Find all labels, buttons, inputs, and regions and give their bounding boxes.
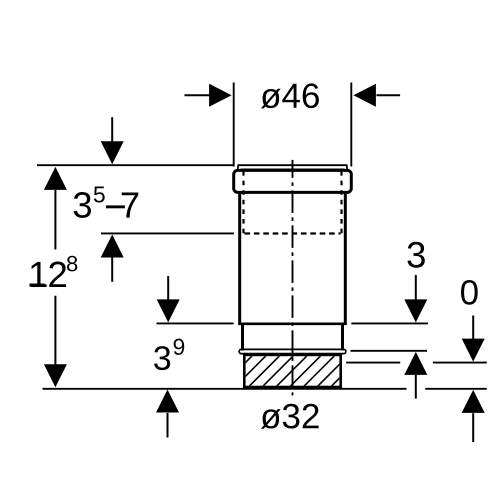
label 3.9 digit 3: [154, 346, 170, 370]
pipe lower section right wall: [341, 324, 344, 351]
label 0 right side: [461, 280, 478, 305]
arrow stem below bottom line left: [167, 413, 169, 438]
arrowhead down to step line right: [404, 299, 427, 322]
socket depth hidden line: [245, 232, 341, 234]
arrowhead down to bottom line for overall height: [44, 364, 67, 387]
label 3.5-7 digit 3: [74, 192, 91, 218]
overall height dimension stem upper: [54, 190, 56, 250]
arrowhead up to socket depth line: [101, 235, 124, 258]
label diameter 46: [261, 83, 319, 108]
label 3.5-7 superscript 5: [94, 187, 105, 203]
arrowhead up to band top line: [404, 352, 427, 375]
arrowhead up to top level line: [44, 167, 67, 190]
label 3 right side: [408, 242, 425, 268]
label 12.8 digit 2: [49, 262, 66, 288]
label 3.9 superscript 9: [174, 339, 185, 355]
dimension arrow tail left of d46: [185, 94, 211, 96]
arrowhead pointing right for d46: [209, 84, 232, 107]
vertical centerline: [292, 160, 294, 396]
label 12.8 digit 1: [31, 262, 47, 287]
arrow stem above zero line: [472, 316, 474, 340]
dimension arrow tail right of d46: [377, 94, 401, 96]
arrow stem above step level line left: [167, 276, 169, 300]
arrowhead pointing left for d46: [353, 84, 376, 107]
step level dimension line right: [351, 322, 428, 324]
overall height dimension stem lower: [54, 296, 56, 365]
bottom level dimension line right part: [425, 388, 487, 390]
pipe body step shoulder line: [238, 322, 347, 325]
arrow stem below bottom line right: [472, 413, 474, 442]
arrowhead up to bottom line right: [462, 390, 485, 413]
pipe body right wall: [344, 192, 347, 323]
label 3.5-7 digit 7: [122, 193, 139, 218]
inner bore hidden line left: [242, 171, 244, 234]
arrow stem above top level line: [111, 117, 113, 142]
zero reference dimension line left segment: [346, 362, 400, 364]
arrowhead down to step line left: [157, 299, 180, 322]
arrow stem above step level line right: [415, 275, 417, 300]
arrow stem below band top level line: [415, 375, 417, 399]
label diameter 32: [261, 404, 319, 429]
label 3.5-7 dash: [106, 205, 125, 208]
pipe fitting lip chamfer line: [241, 168, 345, 170]
extension line right for diameter 46: [350, 83, 352, 167]
step level dimension line left: [157, 322, 234, 324]
bottom level dimension line main: [43, 388, 407, 390]
sealing ring band: [239, 349, 346, 353]
band top level dimension line right: [351, 350, 428, 352]
inner bore hidden line right: [340, 171, 342, 234]
label 12.8 superscript 8: [67, 256, 77, 272]
zero reference dimension line right segment: [433, 362, 487, 364]
label 12.8 digit 1 foot serif: [30, 284, 45, 287]
hatch pattern in insertion depth box: [207, 355, 376, 387]
arrowhead up to bottom line left: [156, 390, 179, 413]
top level dimension line: [37, 164, 234, 166]
pipe fitting socket cap: [234, 170, 352, 192]
arrow stem below socket depth line: [111, 258, 113, 282]
pipe body left wall: [238, 192, 241, 323]
extension line left for diameter 46: [233, 83, 235, 167]
socket depth dimension line: [101, 232, 234, 234]
arrowhead down to top level line: [101, 141, 124, 164]
pipe fitting spigot lip: [238, 165, 348, 170]
arrowhead down to zero line: [462, 339, 485, 362]
spigot insertion depth box: [244, 355, 340, 387]
pipe lower section left wall: [241, 324, 244, 351]
